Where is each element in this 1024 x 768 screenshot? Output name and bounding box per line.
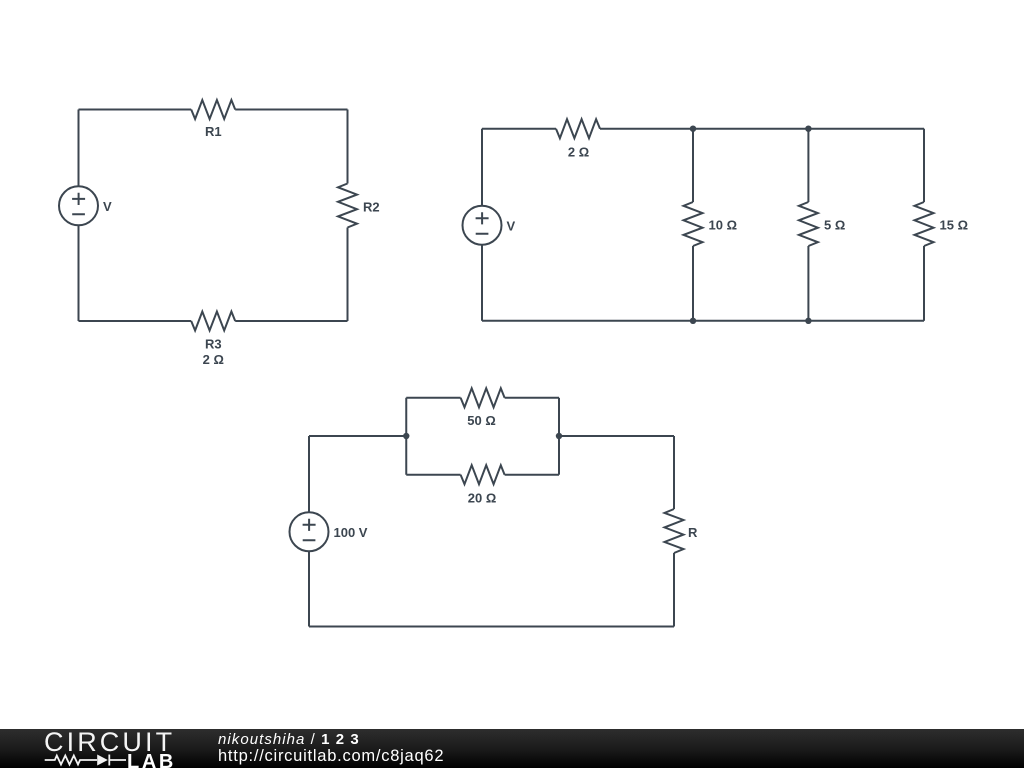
junction dot circuit2 top branch2: [805, 126, 811, 132]
wire: circuit3 left horizontal wire: [309, 435, 406, 437]
wire: circuit3 box top-right segment: [505, 397, 559, 399]
logo resistor-diode glyph: [0, 729, 218, 768]
logo CIRCUIT wordmark: [44, 729, 175, 756]
resistor 5 ohm: [799, 202, 818, 246]
junction dot circuit3 left: [403, 433, 409, 439]
wire: circuit2 bottom wire: [482, 320, 924, 322]
resistor R3: [191, 312, 235, 331]
svg-text:10 Ω: 10 Ω: [709, 217, 738, 232]
resistor 10 ohm: [684, 202, 703, 246]
footer black bar: [0, 729, 1024, 768]
svg-text:5 Ω: 5 Ω: [824, 217, 845, 232]
logo LAB wordmark: [127, 752, 176, 768]
wire: circuit2 right edge lower: [923, 246, 925, 321]
svg-text:20 Ω: 20 Ω: [468, 490, 497, 505]
wire: circuit3 parallel box right vertical: [558, 398, 560, 475]
wire: circuit2 branch1 lower: [692, 246, 694, 321]
svg-text:R1: R1: [205, 124, 222, 139]
wire: circuit1 right wire lower: [347, 228, 349, 322]
wire: circuit1 bottom-left wire segment: [79, 320, 192, 322]
voltage source V circuit2: [463, 206, 502, 245]
wire: circuit3 bottom wire: [309, 626, 674, 628]
wire: circuit1 left wire upper: [78, 110, 80, 187]
wire: circuit2 top-left wire segment: [482, 128, 556, 130]
svg-text:V: V: [103, 199, 112, 214]
resistor 2 ohm circuit2: [556, 119, 600, 138]
wire: circuit3 left wire upper: [308, 436, 310, 512]
junction dot circuit2 bottom branch2: [805, 318, 811, 324]
svg-text:R: R: [688, 525, 698, 540]
wire: circuit1 top-right wire segment: [235, 109, 347, 111]
wire: circuit3 box bottom-left segment: [406, 474, 460, 476]
svg-text:50 Ω: 50 Ω: [467, 413, 496, 428]
resistor R1: [191, 100, 235, 119]
wire: circuit1 top-left wire segment: [79, 109, 192, 111]
svg-text:15 Ω: 15 Ω: [940, 217, 969, 232]
wire: circuit2 branch1 upper: [692, 129, 694, 202]
wire: circuit3 box bottom-right segment: [505, 474, 559, 476]
voltage source V circuit1: [59, 186, 98, 225]
junction dot circuit3 right: [556, 433, 562, 439]
wire: circuit2 branch2 lower: [807, 246, 809, 321]
svg-text:R3: R3: [205, 336, 222, 351]
wire: circuit3 right wire upper: [673, 436, 675, 509]
credit text: [218, 730, 444, 764]
wire: circuit2 branch2 upper: [807, 129, 809, 202]
wire: circuit3 left wire lower: [308, 551, 310, 626]
wire: circuit2 top wire to right edge: [600, 128, 924, 130]
wire: circuit2 left wire upper: [481, 129, 483, 206]
resistor 20 ohm: [461, 465, 505, 484]
wire: circuit2 left wire lower: [481, 245, 483, 321]
resistor R2: [338, 184, 357, 228]
svg-text:2 Ω: 2 Ω: [203, 352, 224, 367]
wire: circuit3 right wire lower: [673, 553, 675, 627]
wire: circuit3 right horizontal wire: [559, 435, 674, 437]
wire: circuit1 right wire upper: [347, 110, 349, 184]
voltage source 100V circuit3: [290, 512, 329, 551]
svg-text:V: V: [507, 219, 516, 234]
resistor 15 ohm: [915, 202, 934, 246]
resistor 50 ohm: [461, 388, 505, 407]
wire: circuit2 right edge upper: [923, 129, 925, 202]
wire: circuit3 parallel box left vertical: [405, 398, 407, 475]
resistor R: [665, 509, 684, 553]
wire: circuit3 box top-left segment: [406, 397, 460, 399]
junction dot circuit2 top branch1: [690, 126, 696, 132]
svg-text:100 V: 100 V: [334, 525, 368, 540]
svg-text:2 Ω: 2 Ω: [568, 144, 589, 159]
svg-text:R2: R2: [363, 199, 380, 214]
wire: circuit1 left wire lower: [78, 225, 80, 321]
wire: circuit1 bottom-right wire segment: [235, 320, 347, 322]
junction dot circuit2 bottom branch1: [690, 318, 696, 324]
